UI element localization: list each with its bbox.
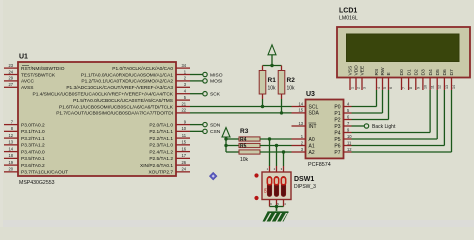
svg-text:U1: U1 [19, 54, 28, 61]
U1 pin 13 P3.3/TA1.2 stub [4, 144, 18, 146]
LCD pin 4 RS stub [376, 78, 378, 91]
U1 pin 27 AVSS stub [4, 86, 18, 88]
svg-text:11: 11 [347, 140, 352, 145]
wire DSW1 pins to ground [270, 206, 284, 208]
svg-text:P2: P2 [334, 117, 340, 123]
resistor R3 [239, 137, 260, 141]
svg-text:10: 10 [347, 134, 352, 139]
svg-text:P0: P0 [334, 104, 340, 110]
resistor R4 [239, 143, 260, 147]
U3 pin 10 P5 stub [344, 138, 352, 140]
svg-text:P1.7/CAOUT/UCB0SIMO/UCB0SDA/A7: P1.7/CAOUT/UCB0SIMO/UCB0SDA/A7/CA7/TDO/T… [56, 111, 173, 117]
LCD pin 9 D2 stub [415, 78, 417, 91]
svg-text:D0: D0 [399, 69, 405, 76]
wire A2 down to DSW1 pin 3 [283, 152, 285, 166]
R2 top pin [281, 66, 283, 71]
svg-text:DIPSW_3: DIPSW_3 [294, 184, 316, 190]
svg-text:18: 18 [8, 153, 13, 158]
wire R3 right to U3 A0 [260, 138, 292, 140]
wire VCC rail to R5 left [226, 151, 239, 153]
U1 pin 1 P1.1/TA0.0/UCA0RXD/UCA0SOMI/A1/CA1 stub [176, 74, 190, 76]
LCD pin 6 E stub [388, 78, 390, 91]
svg-text:3: 3 [363, 87, 367, 89]
svg-text:24: 24 [8, 69, 13, 74]
wire SCL net U1 P1.6 to U3 SCL [190, 106, 292, 108]
svg-text:P1.0/TA0CLK/ACLK/A0/CA0: P1.0/TA0CLK/ACLK/A0/CA0 [112, 66, 173, 72]
LCD pin 13 D6 stub [443, 78, 445, 91]
svg-text:P3.1/TA1.0: P3.1/TA1.0 [21, 129, 45, 135]
terminal MOSI [203, 79, 207, 83]
svg-text:P5: P5 [334, 137, 340, 143]
LCD pin 2 VDD stub [355, 78, 357, 91]
ground symbol [263, 212, 289, 222]
wire U3 P3 to backlight terminal [352, 125, 365, 127]
terminal MISO [203, 72, 207, 76]
svg-text:P3.6/TA0.2: P3.6/TA0.2 [21, 163, 45, 169]
svg-text:XIN/P2.6/TA0.1: XIN/P2.6/TA0.1 [140, 163, 173, 169]
junction A0 to switch column [268, 137, 271, 140]
DSW1 top pin 3 stub [283, 166, 285, 172]
svg-text:P2.4/TA1.2: P2.4/TA1.2 [149, 149, 173, 155]
svg-text:A0: A0 [309, 137, 315, 143]
U1 pin 19 P3.6/TA0.2 stub [4, 164, 18, 166]
svg-text:P3.0/TA0.2: P3.0/TA0.2 [21, 122, 45, 128]
svg-text:MISO: MISO [210, 72, 223, 78]
svg-text:10: 10 [423, 85, 427, 89]
U3 pin 9 P4 stub [344, 132, 352, 134]
svg-text:8: 8 [409, 87, 413, 89]
svg-text:14: 14 [8, 146, 13, 151]
svg-text:P2.5/TA1.2: P2.5/TA1.2 [149, 156, 173, 162]
wire R1 bottom to SCL [262, 99, 264, 107]
svg-text:P3.7/TA1CLK/CAOUT: P3.7/TA1CLK/CAOUT [21, 170, 68, 176]
U3 INT overline [309, 122, 317, 124]
wire LCD RW to U3 P1 [382, 90, 384, 113]
LCD pin 8 D1 stub [408, 78, 410, 91]
svg-text:P1: P1 [334, 111, 340, 117]
svg-text:1: 1 [351, 87, 355, 89]
svg-text:INT: INT [309, 124, 317, 130]
wire A1 down to DSW1 pin 2 [276, 146, 278, 167]
DSW1 bottom pin 4 stub [283, 200, 285, 207]
DSW1 top pin 2 stub [276, 166, 278, 172]
wire U1 pin 2 to terminal MOSI [190, 80, 203, 82]
svg-text:R5: R5 [240, 144, 247, 150]
svg-text:10k: 10k [268, 86, 277, 92]
DSW1 slot 1 [267, 177, 271, 197]
LCD LM016L body [337, 27, 470, 78]
junction R1-SCL [261, 105, 264, 108]
svg-text:P1.6/TA0.1/UCB0SOMI/UCB0SCL/A6: P1.6/TA0.1/UCB0SOMI/UCB0SCL/A6/CA6/TDI/T… [59, 104, 174, 110]
svg-text:P1.4/SMCLK/UCB0STE/UCA0CLK/VRE: P1.4/SMCLK/UCB0STE/UCA0CLK/VREF+/VEREF+/… [33, 92, 174, 98]
svg-text:24: 24 [181, 167, 186, 172]
svg-text:13: 13 [445, 85, 449, 89]
svg-text:7: 7 [402, 87, 406, 89]
IO expander U3 PCF8574 body [306, 100, 344, 159]
power symbol VCC above R1 R2 [268, 45, 276, 55]
U1 pin 24 XOUT/P2.7 stub [176, 171, 190, 173]
svg-text:SCL: SCL [309, 104, 319, 110]
U3 pin 2 A1 stub [292, 145, 306, 147]
svg-text:D4: D4 [428, 69, 434, 76]
svg-text:13: 13 [298, 121, 303, 126]
wire A0 down to DSW1 pin 1 [269, 139, 271, 166]
power symbol VCC for address resistors [222, 128, 230, 138]
LCD pin 14 D7 stub [451, 78, 453, 91]
LCD pin 1 VSS stub [349, 78, 351, 91]
svg-text:11: 11 [182, 133, 187, 138]
junction VCC-R4 row [224, 144, 227, 147]
U3 pin 3 A2 stub [292, 151, 306, 153]
DSW1 slider knob 2 [274, 177, 278, 185]
svg-text:MOSI: MOSI [210, 79, 223, 85]
svg-text:6: 6 [389, 87, 393, 89]
svg-text:10k: 10k [240, 157, 249, 163]
svg-text:U3: U3 [306, 91, 315, 98]
junction A1 to switch column [275, 144, 278, 147]
svg-text:SCK: SCK [210, 92, 221, 98]
wire SDA net U1 P1.7 to U3 SDA [190, 112, 292, 114]
svg-text:34: 34 [181, 63, 186, 68]
svg-text:21: 21 [181, 101, 186, 106]
svg-text:SDN: SDN [210, 122, 221, 128]
R1 bottom pin [262, 94, 264, 99]
LCD screen [347, 34, 460, 62]
U3 pin 5 P1 stub [344, 112, 352, 114]
LCD pin 7 D0 stub [401, 78, 403, 91]
DSW1 slider knob 3 [281, 177, 285, 185]
svg-text:R4: R4 [240, 137, 247, 143]
svg-text:D1: D1 [406, 69, 412, 76]
U1 pin 4 P1.4/SMCLK/UCB0STE/UCA0CLK/VREF+/VEREF+/A4/CA4/TCK stub [176, 93, 190, 95]
svg-text:P1.5/TA0.0/UCB0CLK/UCA0STE/A5/: P1.5/TA0.0/UCB0CLK/UCA0STE/A5/CA5/TMS [73, 98, 173, 104]
U1 pin 16 P2.4/TA1.2 stub [176, 151, 190, 153]
U1 pin 12 P3.2/TA1.1 stub [4, 137, 18, 139]
svg-text:R3: R3 [240, 128, 249, 135]
wire U1 pin 1 to terminal MISO [190, 74, 203, 76]
svg-text:12: 12 [438, 85, 442, 89]
DSW1 slot 3 [281, 177, 285, 197]
svg-text:P3.3/TA1.2: P3.3/TA1.2 [21, 143, 45, 149]
svg-text:CSN: CSN [210, 129, 221, 135]
svg-text:26: 26 [181, 160, 186, 165]
svg-text:13: 13 [8, 140, 13, 145]
svg-text:10: 10 [181, 126, 186, 131]
svg-text:12: 12 [8, 133, 13, 138]
U1 pin 26 XIN/P2.6/TA0.1 stub [176, 164, 190, 166]
dip switch DSW1 body [262, 172, 291, 200]
LCD pin 5 RW stub [382, 78, 384, 91]
svg-text:R1: R1 [268, 77, 277, 84]
DSW1 top pin 1 stub [269, 166, 271, 172]
svg-text:16: 16 [181, 146, 186, 151]
junction ground stem [275, 205, 278, 208]
svg-text:P2.3/TA1.0: P2.3/TA1.0 [149, 143, 173, 149]
U1 pin 20 P3.7/TA1CLK/CAOUT stub [4, 171, 18, 173]
U1 pin 15 P2.3/TA1.0 stub [176, 144, 190, 146]
wire LCD RS to U3 P0 [376, 90, 378, 107]
DSW1 bottom pin 5 stub [276, 200, 278, 207]
LCD pin 12 D5 stub [436, 78, 438, 91]
wire LCD D4 to U3 P4 [429, 90, 431, 133]
resistor R1 [259, 71, 266, 95]
U1 pin 7 P3.0/TA0.2 stub [4, 124, 18, 126]
U3 pin 15 SDA stub [292, 112, 306, 114]
wire VCC rail to R4 left [226, 145, 239, 147]
svg-text:P1.2/TA0.1/UCA0TXD/UCA0SIMO/A2: P1.2/TA0.1/UCA0TXD/UCA0SIMO/A2/CA2 [81, 79, 173, 85]
svg-text:RW: RW [380, 67, 386, 75]
svg-text:VSS: VSS [348, 65, 354, 76]
wire U1 pin 10 to terminal CSN [190, 130, 203, 132]
LCD pin 11 D4 stub [429, 78, 431, 91]
junction R2-SDA [280, 111, 283, 114]
svg-text:D3: D3 [421, 69, 427, 76]
svg-text:VEE: VEE [360, 65, 366, 76]
svg-text:4: 4 [377, 87, 381, 89]
svg-text:P3.4/TA0.0: P3.4/TA0.0 [21, 149, 45, 155]
DSW1 toggle dot lower [254, 196, 258, 200]
DSW1 bottom pin 6 stub [269, 200, 271, 207]
U1 pin 22 P1.7/CAOUT/UCB0SIMO/UCB0SDA/A7/CA7/TDO/TDI stub [176, 112, 190, 114]
U3 pin 7 P3 stub [344, 125, 352, 127]
svg-text:PCF8574: PCF8574 [308, 162, 331, 168]
svg-text:15: 15 [298, 108, 303, 113]
svg-text:P3.5/TA0.1: P3.5/TA0.1 [21, 156, 45, 162]
U1 pin 9 P2.0/TA1.0 stub [176, 124, 190, 126]
DSW1 slider knob 1 [267, 177, 271, 185]
microcontroller U1 MSP430G2553 body [18, 62, 176, 176]
wire LCD D6 to U3 P6 [443, 90, 445, 146]
svg-text:XOUT/P2.7: XOUT/P2.7 [148, 170, 173, 176]
svg-text:RST/NMI/SBWTDIO: RST/NMI/SBWTDIO [21, 66, 65, 72]
svg-text:R2: R2 [287, 77, 296, 84]
svg-text:5: 5 [383, 87, 387, 89]
U1 pin 11 P2.2/TA1.1 stub [176, 137, 190, 139]
svg-text:ON: ON [264, 187, 268, 193]
svg-text:P4: P4 [334, 130, 340, 136]
LCD pin 3 VEE stub [361, 78, 363, 91]
junction VCC-R3 row [224, 137, 227, 140]
wire VCC rail to R3 left [226, 138, 239, 140]
svg-text:P1.3/ADC10CLK/CAOUT/VREF-/VERE: P1.3/ADC10CLK/CAOUT/VREF-/VEREF-/A3/CA3 [66, 85, 173, 91]
U1 pin 29 AVCC stub [4, 80, 18, 82]
svg-text:P1.1/TA0.0/UCA0RXD/UCA0SOMI/A1: P1.1/TA0.0/UCA0RXD/UCA0SOMI/A1/CA1 [81, 72, 173, 78]
R2 bottom pin [281, 94, 283, 99]
svg-text:P6: P6 [334, 143, 340, 149]
svg-text:14: 14 [452, 85, 456, 89]
LCD pin 10 D3 stub [422, 78, 424, 91]
svg-text:9: 9 [416, 87, 420, 89]
svg-text:2: 2 [357, 87, 361, 89]
U1 pin 3 P1.3/ADC10CLK/CAOUT/VREF-/VEREF-/A3/CA3 stub [176, 86, 190, 88]
U1 pin 5 P1.5/TA0.0/UCB0CLK/UCA0STE/A5/CA5/TMS stub [176, 99, 190, 101]
svg-text:VDD: VDD [354, 65, 360, 76]
svg-text:29: 29 [8, 76, 13, 81]
wire U1 pin 4 to terminal SCK [190, 93, 203, 95]
U1 pin 23 RST/NMI/SBWTDIO stub [4, 67, 18, 69]
U3 pin 13 INT stub [292, 125, 306, 127]
svg-text:LCD1: LCD1 [339, 8, 357, 15]
svg-text:P7: P7 [334, 150, 340, 156]
svg-text:27: 27 [8, 82, 13, 87]
terminal SCK [203, 92, 207, 96]
wire LCD D7 to U3 P7 [451, 90, 453, 152]
wire R4 right to U3 A1 [260, 145, 292, 147]
wire LCD E to U3 P2 [388, 90, 390, 120]
svg-text:MSP430G2553: MSP430G2553 [19, 180, 55, 186]
U1 pin 17 P2.5/TA1.2 stub [176, 157, 190, 159]
junction power rail [270, 64, 273, 67]
U1 pin 21 P1.6/TA0.1/UCB0SOMI/UCB0SCL/A6/CA6/TDI/TCLK stub [176, 106, 190, 108]
svg-text:TEST/SBWTCK: TEST/SBWTCK [21, 72, 56, 78]
svg-text:P3.2/TA1.1: P3.2/TA1.1 [21, 136, 45, 142]
svg-text:20: 20 [8, 167, 13, 172]
svg-text:AVSS: AVSS [21, 85, 33, 91]
svg-text:10k: 10k [287, 86, 296, 92]
U1 pin 18 P3.5/TA0.1 stub [4, 157, 18, 159]
wire LCD D5 to U3 P5 [436, 90, 438, 139]
wire power rail to R1 R2 tops [263, 65, 282, 67]
junction A2 to switch column [282, 150, 285, 153]
svg-text:RS: RS [374, 68, 380, 76]
U3 pin 6 P2 stub [344, 119, 352, 121]
U3 pin 12 P7 stub [344, 151, 352, 153]
wire U1 pin 9 to terminal SDN [190, 124, 203, 126]
terminal CSN [203, 129, 207, 133]
svg-text:D5: D5 [435, 69, 441, 76]
origin marker [209, 172, 217, 180]
U1 pin 24 TEST/SBWTCK stub [4, 74, 18, 76]
svg-text:14: 14 [298, 101, 303, 106]
U3 pin 1 A0 stub [292, 138, 306, 140]
svg-text:SDA: SDA [309, 111, 320, 117]
svg-text:A1: A1 [309, 143, 315, 149]
terminal Back Light [364, 124, 368, 128]
svg-text:22: 22 [181, 108, 186, 113]
resistor R2 [278, 71, 285, 95]
DSW1 slot 2 [274, 177, 278, 197]
svg-text:23: 23 [8, 63, 13, 68]
svg-text:19: 19 [8, 160, 13, 165]
svg-text:AVCC: AVCC [21, 79, 35, 85]
svg-text:P2.0/TA1.0: P2.0/TA1.0 [149, 122, 173, 128]
U3 pin 11 P6 stub [344, 145, 352, 147]
R1 top pin [262, 66, 264, 71]
wire R5 right to U3 A2 [260, 151, 292, 153]
resistor R5 [239, 150, 260, 154]
U1 pin 14 P3.4/TA0.0 stub [4, 151, 18, 153]
U3 pin 4 P0 stub [344, 106, 352, 108]
svg-text:12: 12 [347, 147, 352, 152]
svg-text:A2: A2 [309, 150, 315, 156]
svg-text:P3: P3 [334, 124, 340, 130]
svg-text:11: 11 [431, 85, 435, 89]
U1 pin 8 P3.1/TA1.0 stub [4, 130, 18, 132]
svg-text:D6: D6 [442, 69, 448, 76]
svg-text:P2.2/TA1.1: P2.2/TA1.1 [149, 136, 173, 142]
svg-text:DSW1: DSW1 [294, 176, 314, 183]
DSW1 toggle dot upper [254, 173, 258, 177]
U1 pin label RST overline [22, 65, 29, 67]
U3 pin 14 SCL stub [292, 106, 306, 108]
svg-text:D2: D2 [414, 69, 420, 76]
U1 pin 2 P1.2/TA0.1/UCA0TXD/UCA0SIMO/A2/CA2 stub [176, 80, 190, 82]
wire R2 bottom to SDA [281, 99, 283, 113]
U1 pin 34 P1.0/TA0CLK/ACLK/A0/CA0 stub [176, 67, 190, 69]
U1 pin 10 P2.1/TA1.1 stub [176, 130, 190, 132]
svg-text:Back Light: Back Light [372, 124, 396, 130]
svg-text:17: 17 [181, 153, 186, 158]
terminal SDN [203, 122, 207, 126]
svg-text:15: 15 [181, 140, 186, 145]
svg-text:D7: D7 [449, 69, 455, 76]
svg-text:LM016L: LM016L [339, 16, 358, 22]
svg-text:P2.1/TA1.1: P2.1/TA1.1 [149, 129, 173, 135]
